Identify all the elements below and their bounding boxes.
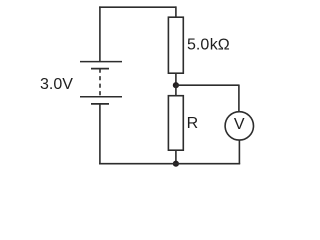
battery B1 short plate (bottom cell -) xyxy=(91,103,109,105)
node junction dot (bottom) xyxy=(173,161,179,167)
voltmeter V (circle) xyxy=(225,112,253,140)
wire node down to resistor R xyxy=(175,85,177,96)
wire bottom horizontal xyxy=(99,163,240,165)
battery B1 long plate (top cell +) xyxy=(80,61,122,63)
resistor R (box) xyxy=(168,96,183,151)
battery B1 long plate (bottom cell +) xyxy=(80,96,122,98)
wire top horizontal xyxy=(99,6,176,8)
wire 5.0k resistor bottom to node xyxy=(175,73,177,85)
resistor 5.0 kOhm (box) xyxy=(168,17,183,73)
wire voltmeter top vertical xyxy=(238,85,240,112)
svg-text:5.0kΩ: 5.0kΩ xyxy=(187,37,230,54)
node junction dot (top) xyxy=(173,82,179,88)
wire node to voltmeter (horizontal) xyxy=(176,84,239,86)
wire voltmeter bottom vertical xyxy=(238,140,240,164)
svg-text:3.0V: 3.0V xyxy=(40,76,73,93)
svg-text:R: R xyxy=(187,115,199,132)
battery dashed link (more cells) xyxy=(99,69,101,97)
svg-text:V: V xyxy=(234,116,245,133)
wire left vertical (battery bottom lead) xyxy=(99,104,101,165)
battery B1 short plate (top cell -) xyxy=(91,68,109,70)
wire left vertical (battery top lead) xyxy=(99,6,101,61)
wire right vertical into 5.0k resistor xyxy=(175,6,177,17)
wire resistor R bottom to bottom node xyxy=(175,150,177,164)
